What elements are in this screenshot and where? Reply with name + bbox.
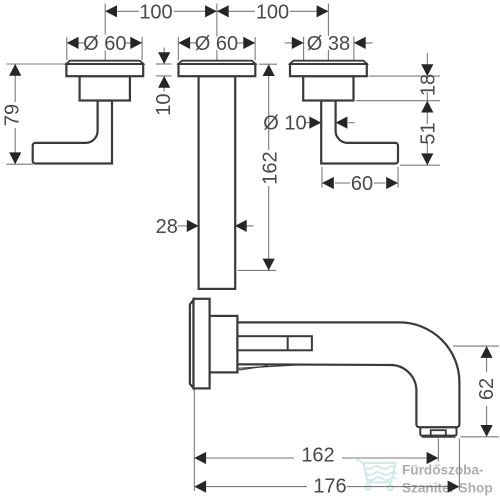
spout body outline <box>237 322 459 427</box>
arrow 79 bottom <box>9 152 21 164</box>
left handle lever <box>33 101 112 164</box>
right escutcheon bevel <box>290 61 367 64</box>
dim 60 line <box>335 182 350 184</box>
dim 100 line right segment <box>217 10 255 12</box>
svg-text:60: 60 <box>351 173 373 195</box>
arrow 10 down <box>158 52 170 64</box>
arrow 162 bottom <box>263 259 275 271</box>
left escutcheon plate <box>66 64 143 76</box>
dim 60 extensions <box>321 167 323 188</box>
arrow d38 inward west <box>292 37 304 49</box>
svg-text:10: 10 <box>153 93 175 115</box>
center extension line spout <box>216 4 218 37</box>
dim d60 left line <box>67 42 84 44</box>
right handle lever <box>321 101 398 164</box>
dim 10 plate thickness ticks <box>156 63 172 65</box>
dim 162 bottom tick <box>238 269 276 271</box>
arrow 100 middle pair b <box>217 5 229 17</box>
arrow d60 middle west <box>178 37 190 49</box>
internal pipe divider <box>287 336 289 350</box>
arrow 176 west <box>194 481 206 493</box>
arrow 176 east <box>448 481 460 493</box>
right valve body <box>303 76 353 100</box>
arrow 28 left <box>235 220 247 232</box>
aerator bottom band <box>422 435 456 438</box>
dim d10 line <box>305 122 310 124</box>
arrow d38 inward east <box>354 37 366 49</box>
dim 162 bottom line <box>194 457 294 459</box>
arrow 100 left end <box>105 5 117 17</box>
dim 162 top tick <box>259 63 277 65</box>
dim 18/51 middle tick <box>356 100 440 102</box>
svg-text:176: 176 <box>313 476 346 498</box>
arrow 79 top <box>9 64 21 76</box>
arrow 62 up <box>481 346 493 358</box>
svg-text:100: 100 <box>256 1 289 23</box>
wall plate <box>194 299 210 389</box>
arrow 62 down <box>481 425 493 437</box>
dim 18/51 line <box>426 53 428 76</box>
arrow d10 right <box>309 117 321 129</box>
side view 162 extension <box>437 439 439 462</box>
arrow 100 right end <box>317 5 329 17</box>
dim d38 right tails <box>285 42 304 44</box>
svg-text:100: 100 <box>139 1 172 23</box>
arrow 162b east <box>427 452 439 464</box>
svg-text:Ø 10: Ø 10 <box>263 113 306 135</box>
dim 162 line <box>268 64 270 150</box>
side view left extension <box>193 391 195 492</box>
center extension line right handle <box>327 4 329 37</box>
arrow 162b west <box>194 452 206 464</box>
arrow 51 down <box>421 153 433 165</box>
arrow d60 left west <box>67 37 79 49</box>
svg-text:162: 162 <box>301 444 334 466</box>
aerator notch <box>431 430 446 435</box>
right escutcheon plate <box>290 64 367 76</box>
arrow 51 up <box>421 101 433 113</box>
svg-text:62: 62 <box>476 378 498 400</box>
center extension line left handle <box>104 4 106 35</box>
side view: dim 62 top tick <box>453 345 499 347</box>
dim 62 line <box>486 346 488 372</box>
dim 28 line <box>178 225 188 227</box>
svg-text:Fürdőszoba-: Fürdőszoba- <box>402 463 484 478</box>
d60 left extension lines <box>66 37 68 60</box>
dim 10 leader lines <box>163 48 165 65</box>
dim 100 line left segment <box>105 10 139 12</box>
d38 extension lines <box>303 37 305 61</box>
arrow 60 east <box>386 177 398 189</box>
middle escutcheon plate <box>179 64 256 76</box>
left escutcheon bevel <box>66 61 143 64</box>
svg-text:51: 51 <box>417 122 439 144</box>
side view 176 extension <box>458 439 460 491</box>
svg-text:162: 162 <box>259 151 281 184</box>
dim 51 bottom tick <box>400 164 440 166</box>
dim d60 middle line <box>178 42 196 44</box>
arrow d10 left <box>336 117 348 129</box>
dim 176 bottom line <box>194 486 307 488</box>
svg-text:Ø 60: Ø 60 <box>83 33 126 55</box>
svg-text:Ø 60: Ø 60 <box>195 33 238 55</box>
wall flange sliver <box>190 300 194 388</box>
aerator housing <box>420 427 456 435</box>
arrow 60 west <box>322 177 334 189</box>
svg-text:Szaniter Shop: Szaniter Shop <box>402 481 493 496</box>
svg-text:28: 28 <box>156 216 178 238</box>
dim 79 top tick <box>6 63 66 65</box>
svg-text:18: 18 <box>417 74 439 96</box>
spout escutcheon cylinder <box>210 316 238 373</box>
arrow 162 top <box>263 64 275 76</box>
arrow 10 up <box>158 76 170 88</box>
internal supply pipe <box>237 336 312 350</box>
left valve body <box>80 76 130 100</box>
dim 79 bottom tick <box>6 163 33 165</box>
svg-text:79: 79 <box>2 104 24 126</box>
spout bottom wedge line 2 <box>238 366 269 370</box>
dim 79 line <box>14 64 16 102</box>
arrow d60 middle east <box>243 37 255 49</box>
side view: dim 62 bottom tick <box>461 436 500 438</box>
arrow 18 down <box>421 64 433 76</box>
middle escutcheon bevel <box>179 61 256 64</box>
watermark cart icon <box>358 460 396 491</box>
spout column <box>199 76 236 289</box>
d60 middle extension lines <box>177 37 179 60</box>
arrow d60 left east <box>130 37 142 49</box>
arrow 100 middle pair a <box>205 5 217 17</box>
dim 18 top tick <box>369 75 441 77</box>
spout bottom wedge line 1 <box>238 365 301 369</box>
arrow 28 right <box>187 220 199 232</box>
svg-text:Ø 38: Ø 38 <box>307 33 350 55</box>
